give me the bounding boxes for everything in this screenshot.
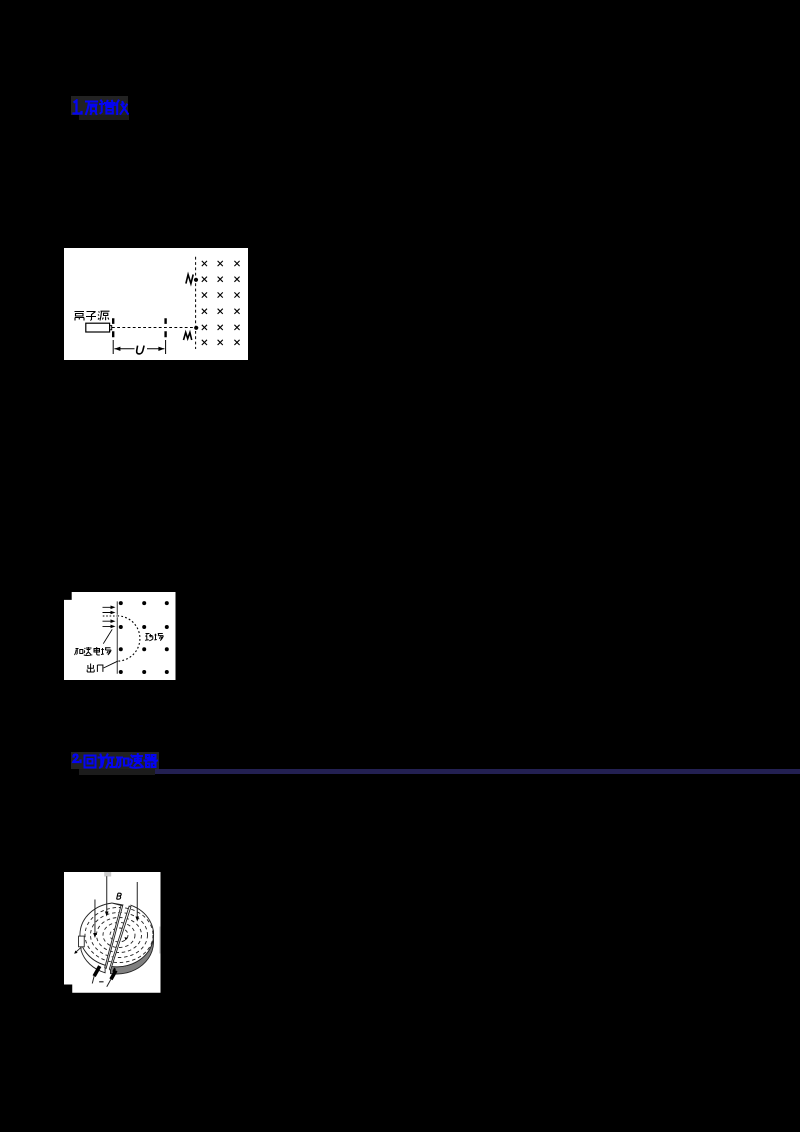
lead 2 <box>111 970 116 979</box>
N label <box>186 274 193 283</box>
tab <box>78 936 84 947</box>
label 出口 <box>87 663 103 672</box>
nub <box>110 325 112 329</box>
heading H1 highlight box <box>71 96 128 115</box>
figure 3: cyclotron 3D <box>64 872 161 993</box>
plate 2 ext line <box>165 340 167 354</box>
right dee top face <box>110 905 153 967</box>
heading H2 text 2.回旋加速器 (blue) <box>71 753 159 770</box>
label 加速电场 <box>75 647 111 655</box>
质 <box>86 102 97 115</box>
boundary vertical line <box>116 601 118 673</box>
ion source label 离子源 <box>75 311 110 320</box>
dotted entry line <box>103 615 117 617</box>
figure 2: cyclotron field diagram <box>64 592 176 680</box>
B arrows <box>95 876 137 934</box>
lead 1 <box>94 966 100 976</box>
heading H1 text 1.质谱仪 (blue) <box>71 99 129 117</box>
exit pointer line <box>104 661 118 668</box>
plate 2 <box>164 318 166 337</box>
dashed field boundary <box>195 256 197 348</box>
gap left slab <box>105 905 123 968</box>
accel field pointer line <box>103 629 112 643</box>
heading H1 underlip <box>79 115 129 120</box>
plate 1 <box>112 318 114 337</box>
AC dash <box>99 980 103 982</box>
right dee gray band <box>110 929 153 973</box>
left dee white band (side) <box>81 942 105 972</box>
N dot <box>194 277 198 281</box>
x symbols grid <box>202 260 240 344</box>
heading H2 rule line <box>155 769 800 775</box>
dashed spiral arcs <box>85 907 153 962</box>
速 <box>131 754 143 768</box>
plate 1 ext line <box>112 340 114 354</box>
器 <box>145 755 158 767</box>
谱 <box>100 101 115 114</box>
M dot <box>194 325 198 329</box>
figure 1: mass spectrometer <box>64 248 248 360</box>
top gray patch <box>104 872 111 877</box>
U dimension arrows <box>114 347 164 349</box>
M label <box>184 332 192 340</box>
回 <box>85 756 96 768</box>
left dee top face <box>80 903 112 965</box>
dotted semicircle <box>117 615 140 660</box>
label 磁场 <box>145 633 163 640</box>
heading H2 underlip <box>79 769 155 775</box>
ion source box <box>86 323 110 332</box>
dashed beam line <box>112 326 196 328</box>
加 <box>116 758 129 768</box>
U label <box>137 345 144 353</box>
gap left slab top face <box>111 902 122 905</box>
heading H2 highlight box <box>71 752 159 769</box>
dots grid <box>119 601 169 674</box>
B label (drawn strokes) <box>116 893 121 899</box>
black mark on band <box>112 967 116 972</box>
旋 <box>99 755 115 768</box>
four arrows <box>103 605 116 628</box>
right edge gray strip <box>159 926 161 953</box>
spiral direction arrow <box>124 937 127 940</box>
仪 <box>116 101 128 115</box>
gap right slab <box>109 906 131 970</box>
